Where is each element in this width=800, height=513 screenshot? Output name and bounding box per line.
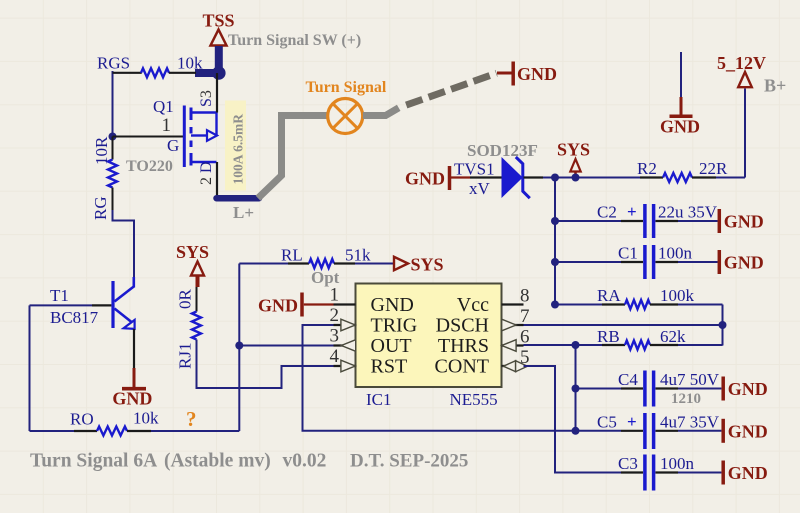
svg-text:SYS: SYS bbox=[411, 255, 444, 275]
wire RO right bbox=[127, 264, 239, 432]
svg-text:4: 4 bbox=[330, 346, 340, 367]
junction DSCH bbox=[719, 321, 727, 329]
wire THRS branch bbox=[575, 345, 577, 431]
svg-text:G: G bbox=[167, 136, 179, 155]
label RL bbox=[281, 246, 303, 265]
svg-text:1210: 1210 bbox=[671, 391, 701, 407]
label 100n (C1) bbox=[658, 244, 693, 263]
IC1 pin names right bbox=[435, 294, 490, 378]
wire C4 right bbox=[656, 387, 722, 389]
svg-text:100n: 100n bbox=[658, 244, 693, 263]
label 1210 bbox=[671, 391, 701, 407]
svg-text:2: 2 bbox=[330, 305, 340, 326]
label 62k bbox=[660, 327, 686, 346]
pin RG bottom bbox=[112, 188, 114, 211]
svg-text:S3: S3 bbox=[198, 90, 215, 107]
svg-text:BC817: BC817 bbox=[50, 308, 99, 327]
label L+ bbox=[233, 203, 254, 222]
resistor RB bbox=[625, 341, 650, 350]
label TO220 bbox=[126, 158, 173, 175]
svg-text:NE555: NE555 bbox=[450, 390, 498, 409]
label NE555 bbox=[450, 390, 498, 409]
svg-text:2 D: 2 D bbox=[198, 161, 215, 185]
port SYS right bbox=[394, 255, 444, 275]
wire C5 left bbox=[576, 430, 644, 432]
svg-text:GND: GND bbox=[728, 421, 768, 441]
svg-text:8: 8 bbox=[520, 286, 530, 307]
label ? bbox=[186, 407, 197, 431]
label RG bbox=[91, 196, 110, 220]
label B+ bbox=[764, 76, 786, 96]
svg-text:4u7 50V: 4u7 50V bbox=[660, 370, 720, 389]
ground C1 bbox=[719, 250, 764, 274]
svg-text:5_12V: 5_12V bbox=[717, 53, 766, 73]
label 51k bbox=[345, 246, 371, 265]
junction C5 bbox=[572, 427, 580, 435]
svg-text:C4: C4 bbox=[618, 370, 638, 389]
svg-text:GND: GND bbox=[112, 389, 152, 409]
label Turn Signal SW (+) bbox=[228, 32, 361, 49]
power port 5_12V bbox=[717, 53, 766, 87]
title text bbox=[30, 451, 326, 472]
label C4 bbox=[618, 370, 638, 389]
port SYS left bbox=[176, 242, 209, 287]
pin 2 arrow in bbox=[341, 319, 355, 331]
resistor R2 bbox=[663, 173, 692, 182]
label RGS bbox=[97, 54, 130, 73]
label 4u7 35V bbox=[660, 413, 720, 432]
label IC1 bbox=[366, 390, 392, 409]
op-amp IC1 body bbox=[356, 284, 502, 388]
IC1 pin stubs bbox=[334, 305, 524, 367]
svg-text:100k: 100k bbox=[660, 286, 695, 305]
label Turn Signal bbox=[306, 79, 387, 96]
svg-text:GND: GND bbox=[371, 294, 414, 316]
svg-text:RJ1: RJ1 bbox=[176, 343, 195, 369]
wire base net bbox=[30, 305, 93, 431]
highlight 100A 6.5mR bbox=[225, 101, 246, 191]
svg-text:RO: RO bbox=[70, 410, 94, 429]
svg-text:GND: GND bbox=[258, 296, 298, 316]
label plus C2 bbox=[627, 202, 637, 221]
resistor RG bbox=[108, 160, 117, 188]
svg-text:Q1: Q1 bbox=[153, 97, 174, 116]
ground C3 bbox=[723, 461, 768, 485]
junction gate node bbox=[109, 133, 117, 141]
label BC817 bbox=[50, 308, 99, 327]
pin label 2 D bbox=[198, 161, 215, 185]
svg-text:IC1: IC1 bbox=[366, 390, 392, 409]
resistor RGS bbox=[141, 68, 169, 77]
svg-text:0R: 0R bbox=[176, 289, 195, 310]
svg-text:7: 7 bbox=[520, 306, 530, 327]
junction THRS bbox=[572, 341, 580, 349]
wire RA right bbox=[650, 305, 723, 346]
svg-text:Turn Signal: Turn Signal bbox=[306, 79, 387, 96]
resistor RJ1 bbox=[192, 312, 201, 340]
svg-text:GND: GND bbox=[517, 64, 557, 84]
mosfet Q1 bbox=[184, 106, 217, 168]
label RJ1 bbox=[176, 343, 195, 369]
svg-text:C2: C2 bbox=[597, 203, 617, 222]
ground C2 bbox=[719, 209, 764, 233]
wire RJ1 to RST bbox=[197, 340, 334, 389]
wire C1 left bbox=[555, 261, 643, 263]
svg-text:+: + bbox=[627, 412, 637, 431]
title date bbox=[350, 451, 468, 472]
wire C2 right bbox=[656, 220, 718, 222]
pin label S3 bbox=[198, 90, 215, 107]
svg-text:GND: GND bbox=[728, 379, 768, 399]
junction TVS bus bbox=[551, 174, 559, 182]
mosfet Q1 gate pin bbox=[113, 136, 185, 138]
pin 3 arrow out bbox=[341, 340, 355, 352]
svg-text:OUT: OUT bbox=[371, 335, 412, 357]
wire C3 right bbox=[656, 471, 722, 473]
svg-text:1: 1 bbox=[162, 115, 172, 136]
label 4u7 50V bbox=[660, 370, 720, 389]
lamp Turn Signal bbox=[328, 99, 363, 134]
svg-text:THRS: THRS bbox=[438, 335, 489, 357]
svg-text:CONT: CONT bbox=[435, 356, 489, 378]
pin 7 arrow out bbox=[502, 319, 516, 331]
wire C1 right bbox=[656, 261, 718, 263]
svg-text:(Astable mv): (Astable mv) bbox=[164, 451, 271, 472]
svg-text:100A 6.5mR: 100A 6.5mR bbox=[231, 114, 246, 185]
label SOD123F bbox=[467, 141, 538, 160]
capacitor C5 bbox=[645, 413, 654, 449]
pin Q1 source top bbox=[216, 73, 218, 113]
wire gnd stub bbox=[680, 52, 682, 97]
svg-text:RG: RG bbox=[91, 196, 110, 220]
svg-text:GND: GND bbox=[724, 253, 764, 273]
svg-text:D.T. SEP-2025: D.T. SEP-2025 bbox=[350, 451, 468, 472]
svg-text:B+: B+ bbox=[764, 76, 786, 96]
pin name G bbox=[167, 136, 179, 155]
wire C2 left bbox=[555, 220, 643, 222]
capacitor C3 bbox=[645, 455, 654, 491]
svg-text:R2: R2 bbox=[637, 159, 657, 178]
junction OUT node bbox=[235, 342, 243, 350]
junction SYS stem bbox=[572, 174, 580, 182]
label C5 bbox=[597, 413, 617, 432]
wire Vcc bus bbox=[554, 178, 556, 305]
svg-text:62k: 62k bbox=[660, 327, 686, 346]
pin TVS cathode bbox=[524, 176, 544, 178]
pin RJ1 top bbox=[196, 287, 198, 312]
svg-text:SOD123F: SOD123F bbox=[467, 141, 538, 160]
pin 5 arrows bidir bbox=[503, 361, 527, 372]
label 10k (RO) bbox=[133, 409, 159, 428]
port SYS mid bbox=[557, 140, 590, 178]
label RB bbox=[597, 327, 620, 346]
wire DSCH bbox=[524, 324, 723, 326]
capacitor C2 bbox=[645, 204, 654, 238]
diode TVS1 bbox=[502, 157, 530, 198]
ground C4 bbox=[723, 377, 768, 401]
resistor RO bbox=[97, 427, 127, 436]
svg-text:xV: xV bbox=[469, 179, 491, 198]
svg-text:RGS: RGS bbox=[97, 54, 130, 73]
label TVS1 bbox=[454, 160, 495, 179]
svg-text:1: 1 bbox=[330, 285, 340, 306]
svg-text:GND: GND bbox=[724, 212, 764, 232]
wire RO left bbox=[30, 430, 98, 432]
label Q1 bbox=[153, 97, 174, 116]
svg-text:C5: C5 bbox=[597, 413, 617, 432]
svg-text:RB: RB bbox=[597, 327, 620, 346]
pin 4 arrow in bbox=[341, 360, 355, 372]
thick wire TSS stem bbox=[195, 46, 219, 73]
svg-text:100n: 100n bbox=[660, 454, 695, 473]
resistor RL bbox=[309, 259, 334, 268]
capacitor C4 bbox=[645, 371, 654, 407]
wire RL right bbox=[334, 262, 394, 264]
label T1 bbox=[50, 286, 69, 305]
wire TVS node bbox=[543, 177, 663, 179]
svg-text:DSCH: DSCH bbox=[436, 315, 489, 337]
pin RG top bbox=[112, 137, 114, 160]
svg-text:+: + bbox=[627, 202, 637, 221]
svg-text:RST: RST bbox=[371, 356, 408, 378]
svg-text:Vcc: Vcc bbox=[457, 294, 489, 316]
label 22R bbox=[699, 159, 728, 178]
label 100A 6.5mR bbox=[231, 114, 246, 185]
wire TRIG net bbox=[303, 325, 576, 431]
svg-text:10R: 10R bbox=[92, 136, 111, 165]
wire dashed to GND bbox=[406, 73, 496, 105]
ground T1 bbox=[112, 368, 152, 409]
svg-text:22R: 22R bbox=[699, 159, 728, 178]
svg-text:?: ? bbox=[186, 407, 197, 431]
svg-text:51k: 51k bbox=[345, 246, 371, 265]
svg-text:TO220: TO220 bbox=[126, 158, 173, 175]
svg-text:RA: RA bbox=[597, 286, 621, 305]
svg-text:SYS: SYS bbox=[176, 242, 209, 262]
wire RGS right bbox=[169, 72, 196, 74]
pin number 1 (gate) bbox=[162, 115, 172, 136]
svg-text:v0.02: v0.02 bbox=[283, 451, 327, 472]
junction C1 bbox=[551, 258, 559, 266]
label 0R bbox=[176, 289, 195, 310]
wire R2 right bbox=[692, 89, 745, 178]
wire RL left bbox=[239, 263, 309, 265]
label C2 bbox=[597, 203, 617, 222]
svg-text:5: 5 bbox=[520, 347, 530, 368]
wire lamp out (gray) bbox=[363, 108, 399, 116]
svg-text:C3: C3 bbox=[618, 454, 638, 473]
wire RG to collector bbox=[113, 210, 135, 277]
junction C4 bbox=[572, 385, 580, 393]
svg-text:GND: GND bbox=[728, 463, 768, 483]
svg-text:22u 35V: 22u 35V bbox=[658, 203, 718, 222]
svg-text:Turn Signal SW (+): Turn Signal SW (+) bbox=[228, 32, 361, 49]
wire RGS left bbox=[113, 71, 142, 137]
IC1 pin numbers left bbox=[330, 285, 340, 368]
svg-text:L+: L+ bbox=[233, 203, 254, 222]
wire OUT to pin3 bbox=[239, 345, 333, 347]
svg-text:4u7 35V: 4u7 35V bbox=[660, 413, 720, 432]
svg-text:TSS: TSS bbox=[202, 11, 234, 31]
pin T1 base bbox=[92, 304, 111, 306]
IC1 pin names left bbox=[371, 294, 418, 378]
wire C5 right bbox=[656, 430, 722, 432]
pin Q1 drain bottom bbox=[216, 162, 218, 197]
port TSS bbox=[202, 11, 234, 46]
label R2 bbox=[637, 159, 657, 178]
label 22u 35V bbox=[658, 203, 718, 222]
label RO bbox=[70, 410, 94, 429]
svg-text:Turn Signal 6A: Turn Signal 6A bbox=[30, 451, 157, 472]
capacitor C1 bbox=[645, 245, 654, 279]
wire CONT net bbox=[524, 366, 644, 473]
svg-text:TRIG: TRIG bbox=[371, 315, 418, 337]
svg-text:T1: T1 bbox=[50, 286, 69, 305]
resistor RA bbox=[625, 300, 650, 309]
IC1 pin numbers right bbox=[520, 286, 530, 369]
svg-text:RL: RL bbox=[281, 246, 303, 265]
svg-text:GND: GND bbox=[660, 117, 700, 137]
svg-text:3: 3 bbox=[330, 326, 340, 347]
ground lamp return bbox=[497, 62, 557, 86]
label Opt bbox=[311, 268, 340, 287]
wire lamp feed (gray) bbox=[258, 116, 328, 199]
junction C2 bbox=[551, 217, 559, 225]
wire RA left bbox=[555, 304, 625, 306]
label C1 bbox=[618, 244, 638, 263]
label 100k bbox=[660, 286, 695, 305]
svg-text:10k: 10k bbox=[133, 409, 159, 428]
svg-text:SYS: SYS bbox=[557, 140, 590, 160]
label 100n (C3) bbox=[660, 454, 695, 473]
wire THRS bbox=[524, 344, 626, 346]
transistor T1 bbox=[113, 277, 135, 329]
label RA bbox=[597, 286, 621, 305]
junction TSS bbox=[212, 66, 226, 80]
ground pin1 bbox=[258, 293, 334, 317]
label C3 bbox=[618, 454, 638, 473]
pin 6 arrow in bbox=[502, 340, 516, 352]
junction pin8 bbox=[551, 301, 559, 309]
wire C4 left bbox=[576, 388, 644, 390]
wire L+ thick bar bbox=[217, 195, 260, 202]
label 10k (RGS) bbox=[177, 54, 203, 73]
ground TVS bbox=[405, 166, 470, 190]
label 10R bbox=[92, 136, 111, 165]
ground top right bbox=[660, 97, 700, 137]
svg-text:GND: GND bbox=[405, 169, 445, 189]
ground C5 bbox=[723, 419, 768, 443]
svg-text:10k: 10k bbox=[177, 54, 203, 73]
pin TVS anode bbox=[470, 176, 502, 178]
wire RB right bbox=[650, 344, 723, 346]
svg-text:TVS1: TVS1 bbox=[454, 160, 495, 179]
svg-text:C1: C1 bbox=[618, 244, 638, 263]
label plus C5 bbox=[627, 412, 637, 431]
label xV bbox=[469, 179, 491, 198]
pin T1 emitter bbox=[133, 329, 135, 368]
